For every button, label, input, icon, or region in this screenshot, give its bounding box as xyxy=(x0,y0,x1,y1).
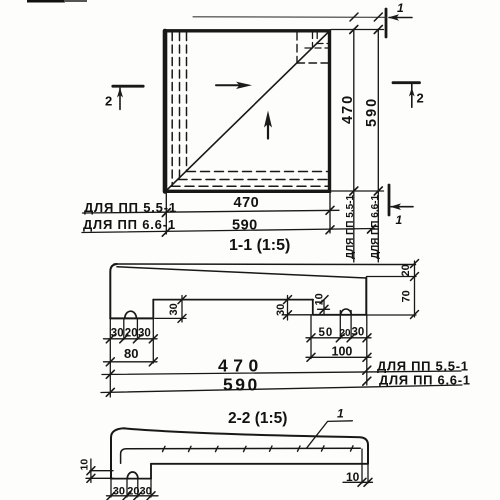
dashed horizontal line H2 xyxy=(178,179,328,181)
section1 right rib hole arc xyxy=(341,309,351,315)
section2 left rib hole arc xyxy=(127,472,138,479)
section1 dim 10 vertical xyxy=(323,300,325,315)
section1 dim line 100 xyxy=(306,356,371,358)
section1 left edge with rounded corner xyxy=(110,264,117,319)
scan artifact bar top-left xyxy=(27,0,65,3)
dashed vertical line V1 xyxy=(171,33,173,186)
corner dashed box vertical xyxy=(296,33,298,64)
section1 dim line 50 20 30 xyxy=(306,337,371,339)
section2 callout leader 1 xyxy=(307,421,353,448)
section1 dim line 30 20 30 xyxy=(104,338,158,340)
dashed horizontal line H3 xyxy=(171,185,328,187)
svg-text:ДЛЯ ПП 5.5-1: ДЛЯ ПП 5.5-1 xyxy=(377,359,469,374)
svg-text:1: 1 xyxy=(397,1,404,15)
svg-text:ДЛЯ ПП 6.6-1: ДЛЯ ПП 6.6-1 xyxy=(370,195,381,259)
section1 top slope line xyxy=(117,267,366,278)
section1 dim line 80 xyxy=(104,361,158,363)
section1 right edge extension down xyxy=(366,315,368,385)
svg-text:20: 20 xyxy=(400,264,412,276)
section1 top horizontal line xyxy=(114,263,416,266)
extension line right bottom xyxy=(367,314,417,316)
plan right edge extension down xyxy=(329,192,331,233)
tick xyxy=(162,209,170,217)
top edge extension line xyxy=(331,29,384,31)
section2 left rib bottom xyxy=(111,478,151,480)
section2 top line xyxy=(124,428,368,463)
rebar ticks xyxy=(163,446,166,451)
plan dim line 590 xyxy=(82,229,375,233)
ticks xyxy=(106,335,114,343)
tick xyxy=(326,226,334,234)
section marker 2 right xyxy=(393,81,420,84)
tick xyxy=(350,13,358,21)
svg-text:30: 30 xyxy=(168,303,180,315)
section1 underside xyxy=(153,299,313,301)
small corner dashed vertical b xyxy=(316,33,318,44)
svg-text:1-1 (1:5): 1-1 (1:5) xyxy=(229,237,290,254)
section1 left step dim vertical xyxy=(181,296,183,323)
section1 left step extension xyxy=(155,317,186,319)
dashed vertical line V3 xyxy=(186,33,188,172)
svg-text:2-2 (1:5): 2-2 (1:5) xyxy=(228,410,287,427)
bottom edge extension line xyxy=(331,190,384,192)
section1 right step extension xyxy=(283,314,312,316)
corner dashed box horizontal xyxy=(297,62,328,64)
svg-text:470: 470 xyxy=(234,195,260,211)
section2 left rib right edge xyxy=(150,464,152,479)
extension line right mid xyxy=(367,276,417,278)
section1 left rib right edge xyxy=(152,300,154,319)
section2 right extension lines xyxy=(361,449,363,483)
svg-text:10: 10 xyxy=(314,293,326,305)
section marker 2 left xyxy=(113,85,143,88)
plan left edge thickening xyxy=(163,31,168,192)
section2 dim line 10 xyxy=(343,481,373,483)
section2 10 dim extension lines xyxy=(90,470,113,472)
svg-text:20: 20 xyxy=(340,328,352,339)
svg-text:ДЛЯ ПП 6.6-1: ДЛЯ ПП 6.6-1 xyxy=(379,373,471,388)
svg-text:1: 1 xyxy=(396,213,403,227)
section marker 1 bottom xyxy=(388,185,391,215)
svg-text:10: 10 xyxy=(78,459,90,471)
tick xyxy=(350,26,358,34)
section1 right rib left edge xyxy=(312,300,314,315)
svg-text:10: 10 xyxy=(346,470,360,484)
tick xyxy=(326,206,334,214)
plan diagonal xyxy=(165,31,330,192)
small corner dashed vertical a xyxy=(312,33,314,49)
svg-text:470: 470 xyxy=(340,94,356,124)
section2 dim line 30 20 30 xyxy=(107,495,159,497)
section1 right rib extension lines down xyxy=(310,315,312,359)
dashed vertical line V2 xyxy=(179,33,181,179)
section2 bottom dim extension lines xyxy=(110,479,112,497)
small corner dashed horizontal a xyxy=(317,43,328,45)
right dim vertical xyxy=(414,261,416,317)
section1 right step dim vertical xyxy=(287,296,289,321)
svg-text:30: 30 xyxy=(352,327,365,339)
section1 hole top extension xyxy=(318,308,330,310)
svg-text:80: 80 xyxy=(124,346,138,361)
svg-text:2: 2 xyxy=(105,94,112,109)
svg-text:590: 590 xyxy=(223,375,260,395)
dashed horizontal line H1 xyxy=(187,171,329,173)
svg-text:20: 20 xyxy=(127,486,139,498)
section marker 1 top xyxy=(385,9,388,37)
svg-text:30: 30 xyxy=(275,304,287,316)
section1 bottom dim line 470 xyxy=(102,371,461,375)
svg-text:ДЛЯ ПП 5.5-1: ДЛЯ ПП 5.5-1 xyxy=(84,200,177,215)
plan view outline xyxy=(165,31,330,192)
svg-text:70: 70 xyxy=(401,290,413,302)
svg-text:20: 20 xyxy=(125,328,138,340)
tick xyxy=(162,228,170,236)
tick xyxy=(374,26,382,34)
svg-text:ДЛЯ ПП 6.6-1: ДЛЯ ПП 6.6-1 xyxy=(83,217,176,232)
svg-text:30: 30 xyxy=(113,486,125,498)
svg-text:590: 590 xyxy=(364,97,380,127)
vertical dimension line 470 xyxy=(353,29,355,262)
svg-text:30: 30 xyxy=(111,328,124,340)
svg-text:590: 590 xyxy=(232,218,258,234)
svg-text:2: 2 xyxy=(417,91,424,106)
svg-text:ДЛЯ ПП 5.5-1: ДЛЯ ПП 5.5-1 xyxy=(345,195,356,259)
section1 left rib bottom xyxy=(110,317,153,319)
plan arrow up xyxy=(267,122,269,139)
section1 right rib bottom xyxy=(313,314,367,316)
svg-text:470: 470 xyxy=(218,356,264,376)
tick xyxy=(374,13,382,21)
section2 rebar line xyxy=(121,448,361,463)
vertical dimension line 590 xyxy=(377,29,379,262)
section1 left rib hole arc xyxy=(125,311,137,318)
section1 left edge extension down xyxy=(109,319,111,398)
section2 slab bottom xyxy=(151,463,368,465)
section2 10 dim vertical xyxy=(90,459,92,483)
plan dim line 470 xyxy=(83,210,340,213)
svg-text:1: 1 xyxy=(337,407,344,421)
svg-text:50: 50 xyxy=(319,327,334,339)
section1 rib right extension down xyxy=(152,319,154,364)
cut line 1-1 trace xyxy=(193,16,386,19)
section1 bottom dim line 590 xyxy=(101,385,462,393)
plan arrow right xyxy=(216,84,246,86)
plan left edge extension down xyxy=(165,192,167,234)
svg-text:30: 30 xyxy=(140,486,152,498)
section2 left edge with rounded corner xyxy=(111,428,124,478)
tick xyxy=(374,187,382,195)
svg-text:100: 100 xyxy=(332,345,353,359)
small corner dashed horizontal b xyxy=(305,47,328,49)
section1 right edge xyxy=(365,278,367,315)
tick xyxy=(368,225,376,233)
svg-text:30: 30 xyxy=(138,328,151,340)
section1 left hole extension lines xyxy=(123,319,125,340)
tick xyxy=(350,187,358,195)
